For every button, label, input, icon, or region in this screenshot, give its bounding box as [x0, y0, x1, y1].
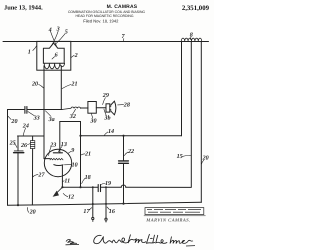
receiver 28 body	[106, 104, 110, 112]
capacitor 25 plates	[14, 150, 23, 152]
label 11 + leader	[64, 178, 70, 185]
head housing box 2 (outer)	[37, 41, 71, 70]
wire: label 7 tick	[122, 39, 124, 42]
label 1 + leader	[28, 49, 31, 56]
oscillator coil 8 on top bus	[181, 38, 201, 41]
svg-text:HEAD FOR MAGNETIC RECORDING: HEAD FOR MAGNETIC RECORDING	[75, 14, 133, 18]
wire 21: plate circuit corner to vertical	[60, 122, 81, 188]
wire Y2: bottom bus	[8, 202, 202, 205]
wire 21: head coil right lead down	[60, 66, 62, 110]
svg-text:25: 25	[9, 139, 16, 146]
junction: plate vertical with wire 14	[79, 135, 81, 137]
svg-text:Filed Nov. 18, 1942: Filed Nov. 18, 1942	[83, 18, 119, 23]
label 13 + leader	[61, 141, 67, 148]
svg-text:3a: 3a	[48, 116, 55, 123]
label 4 + leader	[48, 26, 52, 33]
svg-text:3: 3	[56, 26, 60, 33]
label 8 + leader	[190, 32, 193, 39]
header: title line 1	[68, 10, 145, 14]
wire: branch of grid leak 26	[32, 136, 34, 141]
label 19 + leader	[105, 180, 111, 187]
label 23 + leader	[49, 142, 56, 149]
label 5 + leader	[65, 29, 68, 35]
svg-text:26: 26	[20, 142, 28, 149]
cathode 10	[54, 164, 63, 167]
wire: into unit 30	[81, 107, 88, 109]
wire 20r: coil 8 right end down to bottom bus	[200, 42, 202, 203]
svg-text:23: 23	[49, 142, 56, 149]
svg-text:2: 2	[74, 52, 78, 59]
wire: main top bus 7	[3, 41, 209, 43]
label 30 + leader	[89, 117, 96, 124]
wire: grid lead into tube	[44, 158, 50, 160]
label 10 + leader	[72, 161, 78, 168]
svg-text:MARVIN CAMRAS.: MARVIN CAMRAS.	[145, 218, 190, 223]
label 32 + leader	[69, 113, 76, 120]
wire 11: cathode lead down	[61, 165, 63, 187]
svg-text:21: 21	[70, 81, 77, 88]
svg-text:12: 12	[68, 194, 74, 201]
label 12 + leader	[68, 194, 74, 201]
ground arrow 12	[56, 187, 63, 194]
label 18 + leader	[85, 174, 91, 181]
header: patent number	[182, 5, 210, 12]
wire: coil 8 left tap riser (to wire 14)	[181, 42, 183, 136]
signature: By mark	[66, 240, 80, 245]
capacitor 22 plates	[119, 161, 129, 163]
label 20 (bottom bus) + leader	[29, 208, 36, 215]
terminal 17 lead and tip	[92, 204, 94, 220]
wire: left vertical branch	[7, 110, 9, 206]
wire: plate lead up	[59, 122, 61, 153]
svg-text:10: 10	[72, 161, 78, 168]
svg-text:11: 11	[64, 178, 70, 185]
label 2 + leader	[74, 52, 78, 59]
label 24 + leader	[22, 122, 29, 129]
label 33 + leader	[33, 114, 40, 121]
junction: plate vertical on Y1	[79, 186, 81, 188]
terminal 16 lead and tip	[105, 204, 107, 220]
svg-text:20: 20	[202, 155, 209, 162]
svg-text:1: 1	[28, 49, 31, 56]
label 21 (plate wire) + leader	[84, 150, 91, 157]
svg-text:16: 16	[109, 208, 116, 215]
label 3a + leader	[48, 116, 55, 123]
wire: condenser 25 to bottom bus	[17, 153, 19, 205]
label 15 + leader	[177, 153, 183, 160]
plate 13 bar	[53, 152, 62, 154]
node 7 label on top bus	[122, 34, 126, 40]
label 20 (left vertical) + leader	[10, 118, 17, 125]
label 16 + leader	[109, 208, 116, 215]
wire: capacitor 22 branch upper	[123, 136, 125, 161]
svg-text:30: 30	[89, 117, 96, 124]
svg-text:17: 17	[83, 208, 90, 215]
svg-text:18: 18	[85, 174, 91, 181]
label 28 + leader	[123, 101, 130, 108]
receiver 28 horn	[110, 101, 116, 115]
label 3b + leader	[103, 115, 110, 122]
wire 20: head coil left lead down to grid	[43, 66, 45, 159]
svg-text:20: 20	[31, 81, 38, 88]
unit box 30	[88, 102, 96, 114]
wire: stub left of 19 to bottom bus	[92, 187, 94, 204]
svg-text:June 13, 1944.: June 13, 1944.	[4, 5, 43, 12]
svg-text:2,351,009: 2,351,009	[182, 5, 210, 12]
wire 27: resistor 26 to bottom bus	[31, 149, 33, 205]
wire 15: coil 8 mid tap down to wire Y1	[190, 42, 192, 188]
svg-text:27: 27	[37, 171, 45, 178]
inventor stamp tiny text	[147, 209, 201, 212]
wire 24 horizontal	[18, 135, 44, 137]
header: patent date	[4, 5, 43, 12]
wire: stub right of 19 to bottom bus	[105, 187, 107, 204]
capacitor 33 plates	[25, 107, 27, 114]
label 29 + leader	[102, 92, 109, 99]
capacitor 19 plates	[98, 185, 100, 192]
junction: condenser branch on bottom bus	[17, 204, 19, 206]
svg-text:28: 28	[123, 101, 130, 108]
tube 9 envelope	[44, 149, 71, 176]
svg-text:15: 15	[177, 153, 183, 160]
svg-text:3b: 3b	[103, 115, 110, 122]
label 20 (coil left lead) + leader	[31, 81, 38, 88]
label 17 + leader	[83, 208, 90, 215]
signature: attorneys scribble	[170, 237, 195, 247]
wire: capacitor 22 branch lower	[123, 164, 125, 204]
core box of coil 6 (inner, pole gap at top)	[43, 43, 64, 63]
resistor 26	[30, 141, 34, 149]
coil 6 winding scallops	[44, 63, 64, 68]
svg-text:5: 5	[65, 29, 68, 35]
svg-text:14: 14	[108, 128, 114, 135]
inventor name text	[145, 218, 190, 223]
label 27 + leader	[37, 171, 45, 178]
header: filing date	[83, 18, 119, 23]
signature: Charles W. Hills	[94, 234, 168, 244]
label 21 (coil right lead) + leader	[70, 81, 77, 88]
wire: grid-circuit horizontal with capacitor 33	[8, 109, 63, 111]
wire Y1: cathode bus with hop over 22	[62, 185, 190, 187]
inventor stamp box	[144, 208, 206, 216]
label 3 + leader	[56, 26, 60, 33]
svg-text:6: 6	[55, 51, 59, 58]
junction: bottom bus and 22 branch	[122, 203, 124, 205]
svg-text:8: 8	[190, 32, 193, 39]
label 25 + leader	[9, 139, 16, 146]
label 9 + leader	[71, 147, 74, 154]
header: title line 2	[75, 14, 133, 18]
wire 14	[81, 135, 182, 137]
junction: cathode to Y1	[61, 186, 63, 188]
svg-text:9: 9	[71, 147, 74, 154]
label 20 (right bus) + leader	[202, 155, 209, 162]
svg-text:19: 19	[105, 180, 111, 187]
label 26 + leader	[20, 142, 28, 149]
wire: branch of grid condenser 25	[17, 136, 19, 151]
wire: unit 30 to receiver 28	[96, 107, 106, 109]
header: inventor name	[107, 4, 138, 10]
label 6 + leader	[55, 51, 59, 58]
svg-text:22: 22	[127, 148, 134, 155]
svg-text:20: 20	[10, 118, 17, 125]
junction: capacitor 22 branch on wire 14	[122, 135, 124, 137]
label 22 + leader	[127, 148, 134, 155]
junction dots around 19	[92, 186, 107, 205]
grid of tube (zigzag)	[50, 158, 63, 160]
svg-text:20: 20	[29, 208, 36, 215]
label 14 + leader	[108, 128, 114, 135]
inductor 32 loops	[62, 107, 81, 110]
